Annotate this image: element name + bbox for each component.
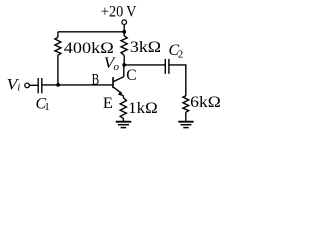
svg-text:1kΩ: 1kΩ bbox=[128, 100, 158, 117]
transistor Q1 base bar bbox=[112, 77, 114, 88]
wire C1 to base node bbox=[42, 84, 58, 86]
svg-text:i: i bbox=[17, 82, 20, 94]
junction dot node Vo bbox=[122, 63, 126, 67]
resistor 3kΩ zigzag bbox=[121, 36, 127, 56]
wire collector vertical to node Vo bbox=[123, 65, 125, 77]
wire emitter to 1k bbox=[122, 95, 124, 98]
svg-text:E: E bbox=[103, 95, 113, 112]
wire 400k top lead bbox=[57, 32, 59, 38]
wire 3k bottom lead bbox=[123, 55, 125, 65]
wire 6k bottom lead bbox=[185, 112, 187, 121]
svg-text:o: o bbox=[114, 61, 120, 73]
wire 400k bottom lead bbox=[57, 55, 59, 85]
wire 1k bottom lead bbox=[122, 118, 124, 121]
resistor 6kΩ zigzag bbox=[183, 96, 189, 113]
wire C2 to 6k corner bbox=[169, 65, 186, 96]
capacitor C2 right plate bbox=[168, 59, 170, 74]
svg-text:1: 1 bbox=[44, 101, 50, 113]
capacitor C2 left plate bbox=[164, 59, 166, 74]
junction dot base node bbox=[56, 83, 60, 87]
wire node Vo to C2 bbox=[124, 64, 165, 66]
transistor Q1 emitter diagonal bbox=[113, 87, 121, 93]
supply terminal +20V circle bbox=[122, 20, 127, 25]
resistor 400kΩ zigzag bbox=[55, 37, 61, 55]
input terminal Vi circle bbox=[25, 83, 30, 88]
wire top rail bbox=[58, 31, 124, 33]
transistor Q1 collector diagonal bbox=[113, 77, 123, 82]
svg-text:2: 2 bbox=[178, 49, 184, 61]
resistor 1kΩ zigzag bbox=[120, 98, 126, 119]
svg-text:+20 V: +20 V bbox=[101, 3, 137, 20]
ground for 1k resistor bbox=[116, 122, 132, 128]
wire Vi to C1 bbox=[29, 84, 37, 86]
wire base rail to transistor bbox=[58, 84, 112, 86]
svg-text:B: B bbox=[92, 72, 100, 89]
capacitor C1 right plate bbox=[41, 78, 43, 93]
junction dot supply node bbox=[122, 30, 126, 34]
transistor Q1 emitter arrowhead bbox=[118, 91, 124, 96]
capacitor C1 left plate bbox=[37, 78, 39, 93]
svg-text:6kΩ: 6kΩ bbox=[190, 94, 221, 111]
ground for 6k resistor bbox=[178, 122, 193, 128]
svg-text:3kΩ: 3kΩ bbox=[130, 39, 161, 56]
svg-text:C: C bbox=[126, 67, 136, 84]
wire 3k top lead bbox=[123, 32, 125, 36]
wire supply stub bbox=[123, 25, 125, 32]
